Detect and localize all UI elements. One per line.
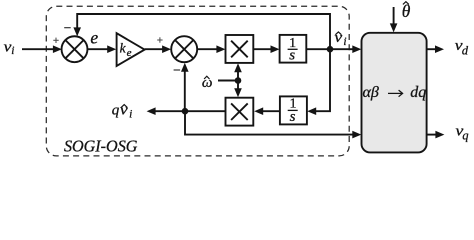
wire q-node up into S2 — [184, 71, 186, 112]
gain ke triangle — [117, 33, 145, 66]
wire I1 to ab-dq block — [306, 48, 358, 50]
svg-text:i: i — [129, 109, 132, 121]
wire feedback from node vhat_i to S1 (top) — [77, 14, 330, 49]
svg-text:k: k — [120, 40, 127, 55]
svg-text:d: d — [462, 44, 469, 58]
wire omega junction up to M1 — [237, 69, 239, 81]
multiplier M2 — [226, 98, 254, 126]
svg-text:dq: dq — [410, 84, 426, 101]
integrator I1 — [280, 35, 307, 63]
summer S2 — [171, 36, 197, 62]
SOGI-OSG dashed boundary — [46, 6, 349, 156]
svg-text:αβ: αβ — [363, 84, 379, 101]
wire vhat_i down to I2 — [311, 49, 330, 111]
svg-text:e: e — [127, 47, 132, 59]
svg-text:q: q — [112, 103, 120, 119]
wire q junction down and right to ab-dq block — [185, 111, 358, 134]
minus sign at S2 bottom input — [174, 69, 181, 71]
output vd — [427, 48, 441, 50]
node vhat_i junction — [327, 46, 334, 53]
plus sign at S2 — [157, 39, 162, 41]
multiplier M1 — [226, 35, 254, 63]
svg-text:s: s — [289, 48, 295, 64]
svg-text:e: e — [90, 27, 98, 47]
svg-text:SOGI-OSG: SOGI-OSG — [64, 136, 138, 155]
wire vi to summer S1 — [22, 48, 59, 50]
wire omega to junction — [218, 80, 238, 82]
plus sign at S1 — [53, 39, 58, 41]
minus sign at S1 — [64, 27, 71, 29]
block alpha-beta to dq — [362, 33, 427, 153]
svg-text:q: q — [462, 128, 468, 142]
output vq — [427, 134, 442, 136]
node q junction — [182, 108, 189, 115]
wire omega junction down to M2 — [237, 81, 239, 93]
svg-text:i: i — [11, 45, 14, 57]
wire S1 to ke — [88, 48, 114, 50]
integrator I2 — [280, 96, 307, 124]
node omega junction — [235, 77, 242, 84]
wire S2 to multiplier M1 — [197, 48, 222, 50]
svg-text:i: i — [343, 36, 346, 48]
svg-text:s: s — [290, 109, 296, 125]
wire M2 output left to q-vhat — [150, 110, 226, 112]
wire M1 to integrator I1 — [253, 48, 276, 50]
wire ke to summer S2 — [145, 48, 168, 50]
wire I2 to multiplier M2 — [260, 110, 280, 112]
summer S1 — [62, 36, 88, 62]
